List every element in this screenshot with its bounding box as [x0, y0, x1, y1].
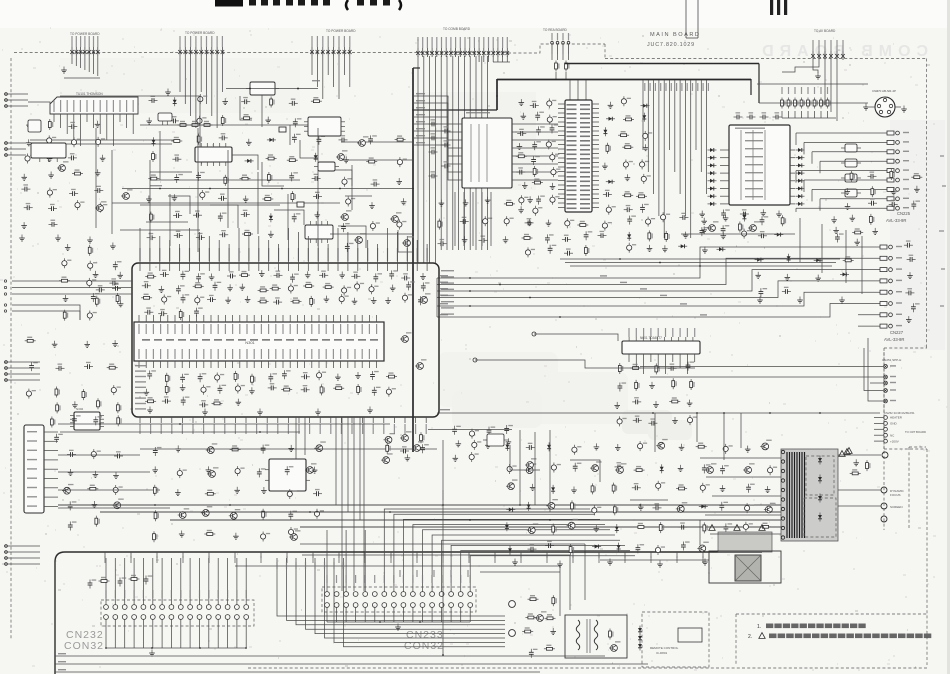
wire CN233 up: [364, 530, 366, 592]
N201 internal pin label: [567, 109, 577, 111]
ground: [519, 99, 525, 106]
header pin XP101-5: [87, 36, 91, 56]
main IC top pin label: [288, 248, 289, 261]
resistor R107: [612, 483, 617, 494]
cropped title bar: [215, 0, 243, 7]
N201 pin right 21: [592, 193, 599, 195]
front board pin: [546, 552, 548, 558]
capacitor C25: [193, 210, 202, 217]
N201 pin left 3: [558, 112, 565, 114]
diode VD9: [606, 117, 615, 121]
N601 pin wire: [679, 354, 681, 368]
comb input label: [416, 114, 425, 115]
N301 pin name: [290, 349, 291, 359]
ground: [456, 440, 462, 447]
N201 internal pin label: [567, 113, 577, 115]
N201 internal pin label: [580, 167, 590, 169]
electrolytic capacitor CE26: [533, 206, 543, 216]
input diode left 4: [708, 171, 717, 175]
wire comb to lower: [490, 192, 492, 246]
capacitor C99: [181, 294, 190, 303]
jumper resistor J7: [820, 98, 825, 109]
wire power drop 2: [696, 413, 698, 442]
N301 pin name: [333, 349, 334, 359]
resistor R115: [760, 523, 771, 529]
capacitor C146: [88, 579, 97, 588]
ground: [175, 445, 181, 452]
wire: [210, 205, 238, 228]
front board pin label: [390, 556, 391, 563]
front board pin label: [468, 556, 469, 563]
electrolytic capacitor CE41: [342, 285, 352, 295]
electrolytic capacitor CE53: [62, 258, 72, 268]
N301 pin top 9: [196, 315, 198, 322]
resistor R231: [555, 61, 560, 72]
ground: [914, 186, 920, 193]
capacitor C308: [429, 171, 438, 178]
N201 internal pin label: [580, 172, 590, 174]
antenna pin: [5, 93, 8, 96]
fan label: [676, 83, 677, 91]
ground: [797, 297, 803, 304]
transistor V32: [590, 461, 602, 471]
wire: [140, 204, 280, 206]
bus wire NETR5: [437, 292, 858, 306]
resistor R104: [696, 443, 707, 449]
wire audio to bus 2: [341, 141, 413, 143]
electrolytic capacitor CE56: [87, 311, 97, 321]
N301 pin top 20: [275, 315, 277, 322]
comb filter N301 outline: [462, 118, 512, 188]
jumper resistor J4: [800, 98, 805, 109]
main IC bottom pin label: [235, 424, 236, 434]
N202 internal divider: [740, 130, 742, 200]
front board pin: [156, 552, 158, 558]
N301 interior label: [190, 339, 198, 341]
resistor R78: [82, 389, 87, 400]
tuner pin 13: [132, 114, 134, 134]
capacitor C134: [68, 521, 77, 530]
wire power drop 4: [740, 413, 742, 448]
ground: [249, 387, 255, 394]
CN232 pin label: [246, 590, 247, 598]
XS201 pin label: [27, 496, 37, 497]
N301 pin bottom 23: [296, 361, 298, 368]
electrolytic capacitor CE23: [551, 167, 561, 177]
wire CN233 down: [326, 607, 328, 622]
wire: [549, 430, 551, 512]
N201 internal pin label: [567, 127, 577, 129]
N301 pin bottom 28: [332, 361, 334, 368]
headphone jack CN270: [875, 97, 895, 117]
FBT inner dashed 2: [804, 498, 836, 537]
FBT winding: [796, 452, 798, 538]
connector pin CN232-1b: [104, 615, 109, 620]
cropped title glyph 1: [249, 0, 256, 6]
input diode left 6: [708, 187, 717, 191]
front board pin: [676, 552, 678, 558]
ground: [112, 340, 118, 347]
capacitor C17: [172, 154, 181, 161]
transistor V33: [743, 463, 755, 473]
N201 pin right 3: [592, 112, 599, 114]
main IC bottom pin stub: [287, 417, 289, 423]
ground: [747, 557, 753, 564]
jumper label: [781, 87, 782, 94]
CN232 pin label: [208, 590, 209, 598]
FBT diode VD35: [818, 475, 822, 484]
dashed bus to power board left: [14, 52, 508, 54]
wire: [211, 56, 213, 116]
ground: [144, 389, 150, 396]
N301 pin name: [354, 349, 355, 359]
fan label: [655, 83, 656, 91]
capacitor C48: [531, 156, 540, 165]
ground: [352, 298, 358, 305]
capacitor C53: [640, 204, 649, 213]
N301 pin bottom 5: [167, 361, 169, 368]
transistor V25: [384, 433, 396, 443]
header pin XP201-1: [178, 36, 182, 56]
capacitor C121: [112, 284, 121, 291]
wire left input 4: [4, 545, 40, 547]
resistor R111: [202, 121, 213, 127]
tuner pin label: [67, 100, 68, 112]
electrolytic capacitor CE40: [288, 284, 298, 294]
main IC bottom pin label: [373, 424, 374, 434]
transistor V37: [764, 503, 776, 513]
N201 internal pin label: [580, 118, 590, 120]
main IC bottom pin label: [267, 424, 268, 434]
svg-text:N302: N302: [76, 407, 84, 411]
electrolytic capacitor CE42: [355, 281, 365, 291]
wire long net x443: [442, 440, 444, 655]
wire: [569, 555, 571, 610]
CN232 pin label: [134, 590, 135, 598]
N201 internal pin label: [567, 145, 577, 147]
wire: [720, 172, 729, 174]
bus wire audio-2: [647, 80, 649, 172]
wire: [206, 56, 208, 104]
N601 pin wire: [650, 354, 652, 362]
N201 pin right 5: [592, 121, 599, 123]
N301 pin name: [311, 324, 312, 334]
capacitor C37: [345, 243, 354, 252]
capacitor C130: [54, 434, 63, 443]
N301 pin name: [203, 349, 204, 359]
ground: [48, 172, 54, 179]
capacitor C154: [648, 418, 657, 425]
T601 cross: [735, 555, 761, 581]
capacitor C122: [113, 261, 122, 270]
wire into main IC: [258, 236, 260, 263]
N201 internal pin label: [580, 113, 590, 115]
wire: [640, 365, 870, 367]
capacitor C51: [603, 190, 612, 197]
ground: [761, 209, 767, 216]
N201 internal pin label: [580, 185, 590, 187]
IR diode VD802: [638, 634, 642, 643]
diode VD32: [592, 545, 601, 549]
wire: [790, 188, 795, 190]
capacitor C103: [144, 307, 153, 314]
ground: [305, 271, 311, 278]
svg-text:REMOTE CONTROL: REMOTE CONTROL: [650, 646, 679, 650]
wire: [349, 56, 351, 87]
main IC pin stub: [297, 263, 299, 271]
resistor R110: [613, 504, 618, 515]
capacitor C81: [700, 227, 709, 236]
CN232 pin label: [199, 590, 200, 598]
connector pin CN232-5a: [141, 605, 146, 610]
wire comb to N201: [520, 139, 558, 141]
CN233 pin label: [346, 575, 347, 583]
wire CN233 down: [345, 607, 347, 622]
main IC bottom pin stub: [150, 417, 152, 423]
EEPROM N302 AT24C16: [70, 412, 104, 430]
connector pin CN233-6a: [372, 592, 377, 597]
resistor R96: [129, 575, 140, 581]
ground: [683, 232, 689, 239]
ground: [259, 270, 265, 277]
wire to FBT pin 2: [706, 476, 781, 478]
connector XS201: [24, 425, 44, 513]
wire CN232 up: [152, 558, 154, 605]
wire CN232 down: [199, 619, 201, 648]
transistor V17: [207, 467, 219, 477]
header pin XP401-1: [416, 37, 420, 57]
header pin XP205-1: [811, 40, 815, 60]
N201 internal pin label: [580, 176, 590, 178]
resistor R32: [636, 192, 647, 198]
ground: [755, 272, 761, 279]
ground: [268, 231, 274, 238]
electrolytic capacitor CE63: [287, 489, 297, 499]
N201 internal pin label: [580, 194, 590, 196]
ground: [312, 467, 318, 474]
capacitor C60: [734, 112, 743, 119]
capacitor C65: [740, 209, 749, 216]
wire: [836, 60, 838, 121]
front board pin: [702, 552, 704, 558]
N201 internal pin label: [567, 163, 577, 165]
header pin XP401-17: [491, 37, 495, 57]
transistor V15: [62, 484, 74, 494]
jumper label: [827, 87, 828, 94]
header pin XP401-18: [496, 37, 500, 57]
capacitor C167: [545, 541, 554, 548]
ground: [146, 118, 152, 125]
wire: [359, 417, 361, 520]
capacitor C92: [389, 270, 398, 279]
capacitor C49: [516, 167, 525, 174]
wire: [819, 199, 821, 211]
main IC bottom pin stub: [234, 417, 236, 423]
ground: [401, 198, 407, 205]
wire to CN225: [812, 188, 862, 190]
capacitor C57: [598, 231, 607, 238]
wire CN233 down: [469, 607, 471, 622]
connector pin CN233-1a: [325, 592, 330, 597]
bus wire video-6: [446, 56, 448, 250]
front board pin label: [624, 556, 625, 563]
wire: [506, 56, 508, 62]
wire CN232 down: [170, 619, 172, 648]
comb pin left 5: [455, 155, 462, 157]
capacitor C140: [288, 511, 297, 520]
riser label: [343, 562, 344, 569]
svg-text:GND: GND: [890, 422, 898, 426]
capacitor C8: [49, 220, 58, 227]
wire: [584, 544, 586, 600]
ground: [701, 226, 707, 233]
capacitor C100: [207, 295, 216, 302]
wire riser CN233-2: [353, 417, 355, 591]
header pin XP401-6: [440, 37, 444, 57]
resistor R75: [25, 337, 36, 343]
FBT winding: [799, 452, 801, 538]
N301 pin name: [182, 349, 183, 359]
wire IF drop 4: [169, 194, 171, 246]
main IC pin stub: [189, 263, 191, 271]
ground: [92, 501, 98, 508]
wire left input: [12, 280, 132, 282]
N301 pin top 2: [145, 315, 147, 322]
front board pin label: [494, 556, 495, 563]
electrolytic capacitor CE11: [200, 190, 210, 200]
main IC top pin label: [199, 248, 200, 261]
transistor V23: [201, 506, 213, 516]
wire into main IC: [159, 236, 161, 263]
tuner pin 2: [60, 114, 62, 128]
fan label: [681, 83, 682, 91]
bus wire y262: [565, 262, 836, 264]
transistor V35: [546, 499, 558, 509]
left input pin: [5, 367, 8, 370]
capacitor C123: [109, 278, 118, 285]
N301 pin name: [333, 324, 334, 334]
connector pin CN233-14a: [449, 592, 454, 597]
N201 pin right 17: [592, 175, 599, 177]
N301 pin name: [275, 349, 276, 359]
comb input wire: [413, 102, 440, 104]
bus wire y672: [55, 671, 540, 673]
N201 internal pin label: [580, 199, 590, 201]
electrolytic capacitor CE58: [111, 385, 121, 395]
capacitor C101: [273, 297, 282, 304]
N201 internal pin label: [580, 163, 590, 165]
resistor R59: [165, 373, 170, 384]
wire CN233 up: [326, 530, 328, 592]
wire: [195, 56, 197, 128]
tuner pin 3: [66, 114, 68, 134]
ground: [65, 244, 71, 251]
CN233 pin label: [422, 575, 423, 583]
resistor R83: [117, 415, 122, 426]
N201 pin left 18: [558, 180, 565, 182]
wire: [140, 448, 437, 450]
ground: [594, 443, 600, 450]
electrolytic capacitor CE74: [723, 444, 733, 454]
wire CN232 up: [170, 558, 172, 605]
cropped title glyph 3: [273, 0, 280, 6]
capacitor C303: [429, 133, 438, 140]
svg-text:TO POWER BOARD: TO POWER BOARD: [70, 32, 100, 36]
N201 pin left 8: [558, 135, 565, 137]
N202 internal divider: [752, 130, 754, 200]
comb pin left 4: [455, 147, 462, 149]
bus wire CN233 feed: [442, 540, 620, 591]
wire into main IC: [307, 236, 309, 263]
N301 pin bottom 30: [347, 361, 349, 368]
wire: [720, 203, 729, 205]
capacitor C32: [219, 230, 228, 237]
electrolytic capacitor CE3: [96, 137, 106, 147]
header pin XP401-5: [435, 37, 439, 57]
wire CN233 gnd bus: [327, 621, 470, 623]
capacitor C52: [624, 205, 633, 212]
N202 row label: [745, 140, 763, 141]
N301 pin name: [153, 349, 154, 359]
riser label: [295, 562, 296, 569]
main IC bottom pin stub: [372, 417, 374, 423]
wire to FBT pin 4: [705, 514, 781, 516]
N201 pin left 21: [558, 193, 565, 195]
connector pin CN232-5b: [141, 615, 146, 620]
N301 pin top 15: [239, 315, 241, 322]
tuner pin label: [113, 100, 114, 112]
wire: [58, 423, 390, 425]
resistor R38: [890, 169, 895, 180]
microcontroller N301: [134, 322, 384, 361]
connector pin CN233-13a: [439, 592, 444, 597]
capacitor C96: [213, 282, 222, 291]
main IC pin stub: [387, 263, 389, 271]
ground: [324, 296, 330, 303]
wire: [262, 162, 284, 186]
wire to CN225: [820, 160, 862, 162]
IR diode VD801: [638, 626, 642, 635]
wire: [58, 471, 150, 473]
header pin XP205-2: [817, 40, 821, 60]
electrolytic capacitor CE12: [397, 157, 407, 167]
main IC bottom pin label: [426, 424, 427, 434]
diode VD11: [603, 127, 607, 136]
main IC bottom pin stub: [298, 417, 300, 423]
cropped title paren right: [399, 0, 401, 10]
wire CN233 down: [412, 607, 414, 622]
wire left input 3: [4, 361, 40, 363]
FBT winding: [794, 452, 796, 538]
transistor V5: [357, 136, 369, 146]
wire left input 4: [4, 551, 40, 553]
bus wire y512: [100, 511, 812, 513]
N201 internal pin label: [580, 181, 590, 183]
wire left input 2: [12, 305, 80, 320]
header pin XP301-3: [321, 36, 325, 56]
electrolytic capacitor CE73: [638, 441, 648, 451]
wire into main IC: [327, 244, 329, 263]
resistor R30: [622, 143, 633, 149]
jack contact 3: [889, 104, 892, 107]
wire: [720, 149, 729, 151]
N301 pin name: [246, 324, 247, 334]
XS201 pin 5: [44, 468, 58, 470]
resistor R5: [221, 115, 226, 126]
transistor V41: [525, 458, 537, 468]
main IC top pin label: [268, 248, 269, 261]
N301 pin name: [146, 349, 147, 359]
